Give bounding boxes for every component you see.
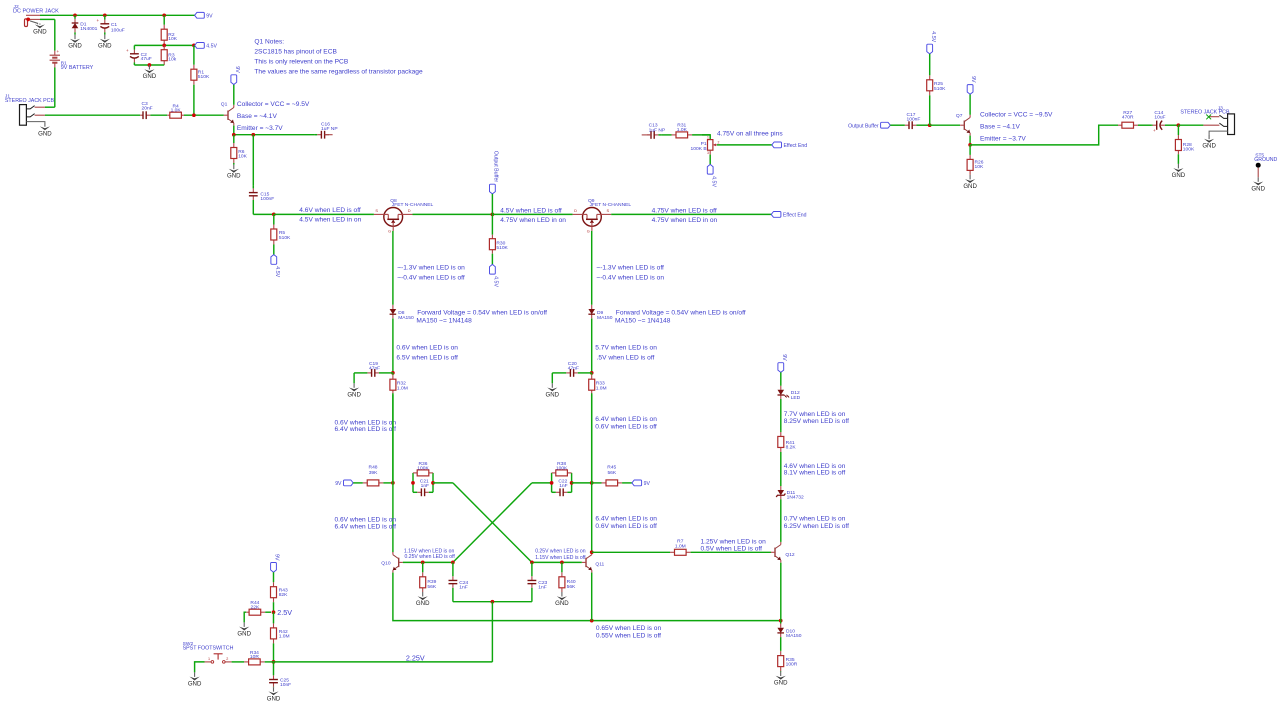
pin stub C16 open end xyxy=(325,134,333,136)
svg-text:0.25V when LED is off: 0.25V when LED is off xyxy=(405,554,456,560)
text 2.25V xyxy=(406,653,425,662)
text forward voltage right line1 xyxy=(616,309,746,316)
terminal ST5 ground lug xyxy=(1256,163,1261,178)
svg-text:This is only relevent on the P: This is only relevent on the PCB xyxy=(254,58,348,65)
transistor Q9 JFET N-channel xyxy=(573,198,632,234)
text gate right line2 xyxy=(596,274,664,281)
wire LED to R41 xyxy=(780,399,782,431)
svg-text:Output Buffer: Output Buffer xyxy=(493,151,499,183)
text left 6.4V off row2 xyxy=(335,426,397,433)
text 7.7V when LED is on xyxy=(784,411,846,418)
resistor R42 1.0M xyxy=(271,612,290,662)
svg-text:39K: 39K xyxy=(369,470,378,476)
svg-text:4.75V when LED is off: 4.75V when LED is off xyxy=(652,207,717,214)
capacitor C19 47nF xyxy=(354,369,393,377)
svg-text:0.6V when LED is on: 0.6V when LED is on xyxy=(396,345,458,352)
label C20 ref xyxy=(568,361,577,367)
svg-text:9V BATTERY: 9V BATTERY xyxy=(61,65,94,71)
svg-text:1.15V when LED is off: 1.15V when LED is off xyxy=(535,555,586,561)
svg-text:Emitter = ~3.7V: Emitter = ~3.7V xyxy=(237,125,283,132)
svg-text:G: G xyxy=(388,228,391,233)
capacitor C21 1nF xyxy=(413,488,433,496)
capacitor C22 1nF xyxy=(552,488,572,496)
junction Q10 base / R39 xyxy=(421,561,425,565)
svg-text:1nF: 1nF xyxy=(459,585,467,591)
ground below R40 xyxy=(555,592,569,607)
resistor R28 100K xyxy=(1175,125,1195,154)
text left 6.5V off row1 xyxy=(396,355,458,362)
text left 0.6V on row2 xyxy=(335,419,397,426)
junction 4.5V rail / R2 R3 xyxy=(162,44,166,48)
diode D1 1N4001 xyxy=(72,15,98,34)
no-connect X on J3 ring xyxy=(1206,115,1211,120)
svg-text:4.5V: 4.5V xyxy=(206,44,217,50)
text 8.1V when LED is off xyxy=(784,470,846,477)
text emitter voltage Q7 xyxy=(980,135,1026,142)
diode D10 MA150 xyxy=(777,621,801,640)
wire jack pin2 to battery xyxy=(40,18,55,20)
svg-text:1: 1 xyxy=(707,136,709,140)
ground below R39 xyxy=(416,592,430,607)
svg-text:S: S xyxy=(375,208,378,213)
wire C20 to ground elbow xyxy=(551,373,553,383)
svg-text:Collector = VCC = ~9.5V: Collector = VCC = ~9.5V xyxy=(980,111,1053,118)
wire C15 branch down xyxy=(252,135,254,186)
global label 4.5V rail xyxy=(195,43,218,50)
svg-text:20nF: 20nF xyxy=(142,106,153,112)
label C21 ref xyxy=(420,479,429,485)
capacitor C25 10nF xyxy=(269,662,291,688)
global label 4.5V below R30 xyxy=(490,264,499,287)
svg-text:47nF: 47nF xyxy=(369,366,380,372)
svg-text:GND: GND xyxy=(1172,172,1186,179)
zener diode D11 1N4732 xyxy=(776,486,804,500)
wire cross diagonal left-top to right-bottom xyxy=(453,483,532,563)
svg-text:100nF: 100nF xyxy=(907,117,921,123)
svg-text:MA150: MA150 xyxy=(398,315,414,321)
text 4.75V when LED in on xyxy=(500,217,566,224)
svg-text:2: 2 xyxy=(226,657,228,661)
svg-text:4.5V: 4.5V xyxy=(710,176,716,187)
junction flipflop right column xyxy=(590,481,594,485)
wire Q1 emitter down xyxy=(233,126,235,135)
global label 9V divider xyxy=(271,554,280,572)
global label 4.5V below P1 xyxy=(707,164,716,187)
junction C2/R3 ground node xyxy=(148,63,152,67)
svg-text:3: 3 xyxy=(707,151,709,155)
wire C2-R3 bottom xyxy=(134,64,164,66)
wire parallel block left bracket right xyxy=(432,473,434,492)
ground below R35 xyxy=(774,672,788,687)
svg-text:GND: GND xyxy=(188,681,202,688)
global label Output Buffer xyxy=(490,151,499,194)
wire to J3 tip xyxy=(1178,124,1203,126)
svg-text:~-1.3V when LED is off: ~-1.3V when LED is off xyxy=(596,264,664,271)
wire Q11 emitter down xyxy=(591,573,593,621)
label C16 value xyxy=(321,126,338,132)
capacitor C20 47nF xyxy=(552,369,591,377)
svg-text:0.6V when LED is on: 0.6V when LED is on xyxy=(335,517,397,524)
wire Q7 emitter down xyxy=(969,136,971,145)
text right 0.6V off row2 xyxy=(595,423,657,430)
svg-text:10K: 10K xyxy=(238,154,247,160)
svg-text:+: + xyxy=(1153,128,1156,133)
svg-text:9V: 9V xyxy=(335,481,342,487)
svg-text:4.5V when LED is off: 4.5V when LED is off xyxy=(500,207,562,214)
svg-text:GND: GND xyxy=(347,391,361,398)
svg-text:82K: 82K xyxy=(279,592,288,598)
resistor R25 510K xyxy=(927,54,946,125)
capacitor C15 100nF xyxy=(249,186,274,215)
junction C20 node xyxy=(590,371,594,375)
global label 9V left flipflop xyxy=(335,480,353,487)
svg-text:100nF: 100nF xyxy=(260,196,274,202)
wire R4 to Q1 base xyxy=(184,114,224,116)
svg-text:GND: GND xyxy=(416,600,430,607)
junction Q11 collector / R7 wire xyxy=(590,550,594,554)
svg-text:4.5V: 4.5V xyxy=(493,276,499,287)
svg-text:22K: 22K xyxy=(251,604,260,610)
svg-text:9V: 9V xyxy=(274,554,280,561)
resistor R3 10k xyxy=(161,45,177,65)
label J3 STEREO JACK PCB xyxy=(1180,110,1230,116)
text 6.25V when LED is off xyxy=(784,523,849,530)
svg-text:Base = ~4.1V: Base = ~4.1V xyxy=(237,113,278,120)
svg-text:6.4V when LED is on: 6.4V when LED is on xyxy=(595,516,657,523)
svg-text:Effect End: Effect End xyxy=(784,143,808,149)
svg-text:4.75V when LED in on: 4.75V when LED in on xyxy=(500,217,566,224)
svg-text:470R: 470R xyxy=(1122,115,1134,121)
svg-text:100R: 100R xyxy=(786,662,798,668)
svg-text:~-0.4V when LED is on: ~-0.4V when LED is on xyxy=(596,274,664,281)
text right 6.4V on row2 xyxy=(595,416,657,423)
svg-text:1.0K: 1.0K xyxy=(171,108,182,114)
svg-text:JFET N-CHANNEL: JFET N-CHANNEL xyxy=(392,202,434,208)
wire output node to R30 xyxy=(491,214,493,234)
junction long rail / Q11 emitter xyxy=(590,619,594,623)
junction left block left xyxy=(411,481,415,485)
svg-text:0.6V when LED is off: 0.6V when LED is off xyxy=(595,423,657,430)
resistor R1 510K xyxy=(191,45,210,115)
transistor Q8 JFET N-channel xyxy=(374,198,434,234)
text 4.5V when LED is off xyxy=(500,207,562,214)
svg-text:4.75V on all three pins: 4.75V on all three pins xyxy=(717,130,783,137)
label C20 value xyxy=(568,366,579,372)
svg-text:Q1: Q1 xyxy=(221,101,228,107)
text 0.55V when LED is off xyxy=(596,632,661,639)
svg-text:GND: GND xyxy=(1202,143,1216,150)
resistor R35 100R xyxy=(778,651,798,672)
ground below C19 xyxy=(347,383,361,398)
resistor R41 8.2K xyxy=(778,431,797,453)
global label 9V LED column xyxy=(778,354,787,372)
wire R41 to D11 xyxy=(780,453,782,486)
wire R28 to ground xyxy=(1177,154,1179,164)
switch SW2 SPST footswitch xyxy=(205,654,232,663)
capacitor C16 1uF NP xyxy=(315,131,329,139)
text forward voltage left line2 xyxy=(416,317,472,324)
svg-text:R48: R48 xyxy=(369,465,378,471)
svg-text:1N4732: 1N4732 xyxy=(787,494,804,500)
junction 4.5V rail / R1 xyxy=(192,44,196,48)
text forward voltage left line1 xyxy=(417,309,547,316)
wire R31 to P1 xyxy=(702,135,710,139)
svg-text:2.5V: 2.5V xyxy=(277,608,292,617)
svg-text:6.4V when LED is off: 6.4V when LED is off xyxy=(335,524,397,531)
svg-text:GND: GND xyxy=(143,73,157,80)
ground below J2 xyxy=(33,24,47,36)
svg-text:6.5V when LED is off: 6.5V when LED is off xyxy=(396,355,458,362)
wire Q10 emitter to long rail xyxy=(393,573,781,621)
wire P1 bottom to 4.5V xyxy=(709,155,711,165)
resistor R32 1.0M xyxy=(390,373,408,483)
text left 0.6V on row3 xyxy=(335,517,397,524)
capacitor C23 1nF xyxy=(528,562,548,601)
text 8.25V when LED is off xyxy=(784,418,849,425)
wire right block to corner xyxy=(532,482,552,484)
svg-text:GND: GND xyxy=(38,130,52,137)
text 4.75V when LED in on xyxy=(652,217,718,224)
label C17 ref xyxy=(907,112,916,118)
label J3 reference xyxy=(1218,105,1223,111)
junction C17 / R25 xyxy=(928,123,932,127)
svg-text:MA150 ~= 1N4148: MA150 ~= 1N4148 xyxy=(615,317,671,324)
svg-text:GND: GND xyxy=(98,43,112,50)
svg-text:5.7V when LED is on: 5.7V when LED is on xyxy=(595,345,657,352)
svg-text:100K: 100K xyxy=(417,465,429,471)
wire right column R33 to Q11 xyxy=(591,393,593,552)
svg-text:47uF: 47uF xyxy=(141,56,152,62)
resistor R5 510K xyxy=(271,214,291,254)
text Q11 base line1 xyxy=(535,549,586,555)
resistor R31 1.0K xyxy=(661,122,710,137)
wire Q11 base row xyxy=(532,561,582,563)
svg-text:0.25V when LED is on: 0.25V when LED is on xyxy=(535,549,586,555)
junction right block left xyxy=(550,481,554,485)
resistor R27 470R xyxy=(1118,110,1152,128)
capacitor C17 100nF xyxy=(890,121,929,129)
label C17 value xyxy=(907,117,921,123)
junction 9V rail / C1 xyxy=(103,13,107,17)
svg-text:+: + xyxy=(56,49,59,54)
junction emitter / R6 xyxy=(232,133,236,137)
label C16 ref xyxy=(321,121,330,127)
battery B1 xyxy=(50,19,94,71)
ground below R44 xyxy=(237,622,251,637)
svg-text:100K: 100K xyxy=(556,465,568,471)
wire C19 to ground elbow xyxy=(353,373,355,383)
svg-text:9V: 9V xyxy=(234,66,240,73)
label C21 value xyxy=(421,483,429,489)
global label Effect End main row xyxy=(771,212,806,219)
wire R25 node to Q7 base xyxy=(930,124,960,126)
svg-text:Q1 Notes:: Q1 Notes: xyxy=(254,39,284,46)
svg-text:100uF: 100uF xyxy=(111,27,125,33)
svg-text:1.0M: 1.0M xyxy=(675,543,686,549)
svg-text:Base = ~4.1V: Base = ~4.1V xyxy=(980,123,1021,130)
svg-text:4.5V: 4.5V xyxy=(930,31,936,42)
global label 4.5V above R25 xyxy=(927,31,936,54)
global label 9V at Q7 xyxy=(967,76,976,94)
svg-text:Output Buffer: Output Buffer xyxy=(848,123,879,129)
diode D9 MA150 xyxy=(588,305,612,321)
svg-text:1uF NP: 1uF NP xyxy=(649,127,666,133)
junction left block right xyxy=(431,481,435,485)
svg-text:1uF NP: 1uF NP xyxy=(321,126,338,132)
svg-text:56K: 56K xyxy=(427,584,436,590)
ground below R28 xyxy=(1172,164,1186,179)
svg-text:SPST FOOTSWITCH: SPST FOOTSWITCH xyxy=(183,645,234,651)
junction Q10 base / C24 xyxy=(451,561,455,565)
text 4.75V when LED is off xyxy=(652,207,717,214)
resistor R39 56K xyxy=(420,562,437,592)
resistor R30 510K xyxy=(489,235,508,254)
wire Q1 collector xyxy=(233,85,235,105)
wire D8 to C19 node xyxy=(392,319,394,373)
svg-text:D: D xyxy=(574,208,577,213)
svg-text:GND: GND xyxy=(237,631,251,638)
svg-text:~-1.3V when LED is on: ~-1.3V when LED is on xyxy=(397,264,465,271)
svg-text:510K: 510K xyxy=(496,245,508,251)
wire 9V label to LED xyxy=(780,372,782,385)
svg-text:4.6V when LED is off: 4.6V when LED is off xyxy=(299,207,361,214)
junction jack sleeve xyxy=(26,18,30,22)
svg-text:STEREO JACK PCB: STEREO JACK PCB xyxy=(5,98,55,104)
text Q10 base line1 xyxy=(404,548,455,554)
text 4.5V when LED in on xyxy=(299,216,361,223)
svg-text:GND: GND xyxy=(774,680,788,687)
resistor R26 10K xyxy=(967,145,984,175)
wire C2 top xyxy=(133,45,135,49)
svg-text:8.25V when LED is off: 8.25V when LED is off xyxy=(784,418,849,425)
svg-text:6.25V when LED is off: 6.25V when LED is off xyxy=(784,523,849,530)
wire Q12 emitter down xyxy=(780,563,782,621)
svg-text:GND: GND xyxy=(546,391,560,398)
svg-text:1.0K: 1.0K xyxy=(677,127,688,133)
label C19 value xyxy=(369,366,380,372)
svg-text:8.2K: 8.2K xyxy=(786,445,797,451)
junction footswitch node xyxy=(272,660,276,664)
svg-text:MA150 ~= 1N4148: MA150 ~= 1N4148 xyxy=(416,317,472,324)
junction 9V rail / R2 xyxy=(162,13,166,17)
transistor Q10 xyxy=(381,552,403,573)
ground below C25 xyxy=(267,687,281,702)
text gate left line1 xyxy=(397,264,465,271)
wire trigger vertical xyxy=(491,602,493,662)
resistor R7 1.0M xyxy=(592,539,771,556)
wire left column R32 to Q10 xyxy=(392,393,394,552)
junction 2.5V node xyxy=(272,610,276,614)
transistor Q1 xyxy=(221,101,234,125)
svg-text:GND: GND xyxy=(555,600,569,607)
wire switch to ground xyxy=(195,662,205,673)
svg-text:100K B: 100K B xyxy=(691,146,707,152)
text Q1 notes line1 xyxy=(254,39,284,46)
svg-text:GROUND: GROUND xyxy=(1254,157,1277,163)
svg-text:Forward Voltage = 0.54V when L: Forward Voltage = 0.54V when LED is on/o… xyxy=(417,309,547,316)
svg-text:1: 1 xyxy=(208,657,210,661)
ground below C20 xyxy=(546,383,560,398)
wire jack tip to C3 xyxy=(45,114,140,116)
text collector voltage Q7 xyxy=(980,111,1053,118)
text 4.6V when LED is off xyxy=(299,207,361,214)
svg-text:10k: 10k xyxy=(168,56,176,62)
wire Q8 drain to output node xyxy=(413,213,493,215)
svg-text:56K: 56K xyxy=(607,470,616,476)
text Q10 base line2 xyxy=(405,554,456,560)
text Q1 notes line3 xyxy=(254,58,348,65)
text Q1 notes line4 xyxy=(254,68,423,75)
capacitor C13 1uF NP xyxy=(647,131,661,139)
capacitor C3 20nF xyxy=(140,101,167,119)
ground below C2 R3 xyxy=(143,65,157,80)
text base voltage Q1 xyxy=(237,113,278,120)
wire 4.5V rail xyxy=(134,44,194,46)
svg-text:Collector = VCC = ~9.5V: Collector = VCC = ~9.5V xyxy=(237,101,310,108)
svg-text:The values are the same regard: The values are the same regardless of tr… xyxy=(254,68,423,75)
label J2 reference xyxy=(14,4,19,10)
resistor R33 1.0M xyxy=(589,373,607,483)
wire Q9 source to effect send xyxy=(611,213,771,215)
label J1 reference xyxy=(5,94,10,100)
svg-text:Q10: Q10 xyxy=(381,560,391,566)
potentiometer P1 100K B xyxy=(691,136,720,156)
svg-text:MA150: MA150 xyxy=(786,633,802,639)
junction right block right xyxy=(570,481,574,485)
text left 6.4V off row3 xyxy=(335,524,397,531)
text 4.75V on all three pins xyxy=(717,130,783,137)
svg-text:0.55V when LED is off: 0.55V when LED is off xyxy=(596,632,661,639)
svg-text:10uF: 10uF xyxy=(1154,115,1165,121)
LED D12 xyxy=(778,386,801,401)
wire output label stem xyxy=(491,194,493,215)
junction flipflop left column xyxy=(391,481,395,485)
resistor R38 100K xyxy=(552,461,572,476)
junction Q11 base / C23 xyxy=(530,561,534,565)
wire Q7 emitter to R27 xyxy=(970,125,1118,145)
global label 9V right flipflop xyxy=(632,480,651,487)
text gate left line2 xyxy=(397,274,465,281)
svg-text:MA150: MA150 xyxy=(597,315,613,321)
svg-text:10R: 10R xyxy=(250,654,259,660)
connector J3 stereo jack xyxy=(1203,114,1234,135)
svg-text:GND: GND xyxy=(227,173,241,180)
wire emitter row xyxy=(234,134,315,136)
resistor R4 1.0K xyxy=(167,103,184,118)
svg-text:GND: GND xyxy=(1251,185,1265,192)
transistor Q7 xyxy=(956,113,970,136)
svg-text:56K: 56K xyxy=(567,584,576,590)
global label 9V at Q1 collector xyxy=(231,66,240,84)
svg-text:JFET N-CHANNEL: JFET N-CHANNEL xyxy=(590,202,632,208)
wire main row to Q8 xyxy=(274,213,374,215)
wire output node to Q9 xyxy=(492,213,572,215)
junction R1 / signal xyxy=(192,113,196,117)
text forward voltage right line2 xyxy=(615,317,671,324)
text 4.6V when LED is on xyxy=(784,463,846,470)
svg-text:510K: 510K xyxy=(198,74,210,80)
wire P1 wiper to effect end xyxy=(717,144,772,146)
svg-text:6.4V when LED is off: 6.4V when LED is off xyxy=(335,426,397,433)
svg-text:S: S xyxy=(607,208,610,213)
resistor R45 56K xyxy=(592,465,632,486)
svg-text:~-0.4V when LED is off: ~-0.4V when LED is off xyxy=(397,274,465,281)
svg-text:4.5V: 4.5V xyxy=(274,266,280,277)
wire cross diagonal right-top to left-bottom xyxy=(453,483,532,563)
resistor R34 10R xyxy=(232,650,274,665)
svg-text:9V: 9V xyxy=(970,76,976,83)
svg-text:LED: LED xyxy=(791,395,801,401)
